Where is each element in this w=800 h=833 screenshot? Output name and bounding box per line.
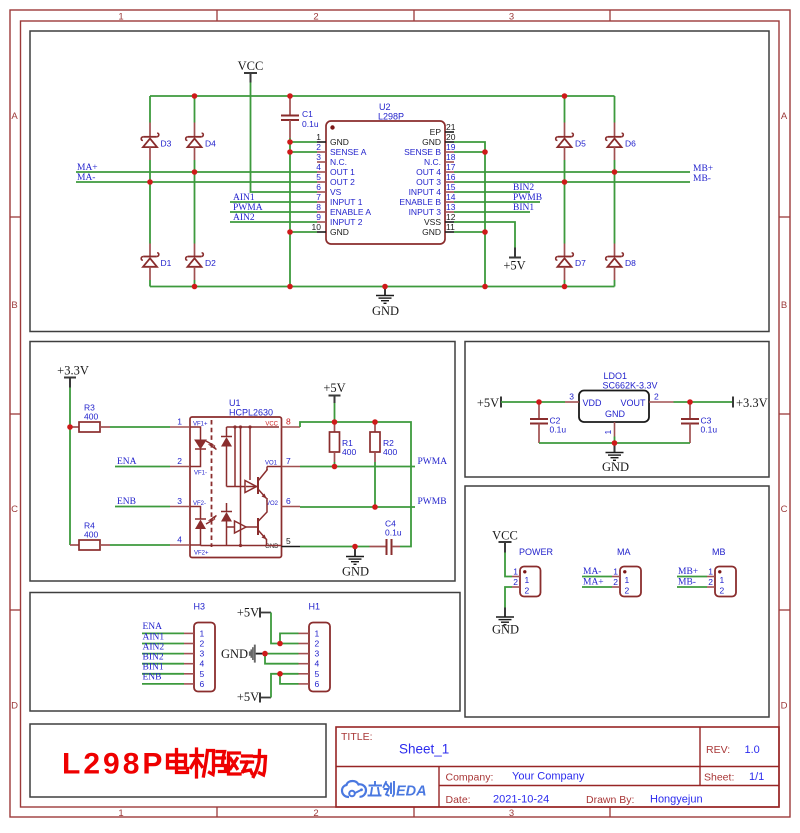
svg-text:B: B bbox=[11, 300, 17, 311]
svg-text:5: 5 bbox=[316, 172, 321, 182]
svg-text:LDO1: LDO1 bbox=[604, 371, 628, 381]
svg-text:1: 1 bbox=[513, 567, 518, 577]
svg-text:PWMB: PWMB bbox=[418, 497, 447, 507]
LDO1 pin 1 GND bbox=[603, 422, 615, 437]
svg-text:4: 4 bbox=[177, 535, 182, 545]
diode D6 bbox=[606, 123, 636, 161]
U1 pin 6 VO2 bbox=[266, 496, 300, 507]
diode D7 bbox=[556, 244, 586, 281]
diode D1 bbox=[141, 244, 171, 281]
op IC U2 L298P body bbox=[326, 102, 445, 244]
svg-text:VO1: VO1 bbox=[265, 461, 278, 467]
capacitor C4 bbox=[370, 519, 402, 556]
junction dots opto section bbox=[67, 419, 378, 549]
wire VCC top rail bbox=[150, 95, 615, 97]
diode D4 bbox=[186, 123, 216, 161]
net PWMB wire to U2 pin14 bbox=[454, 193, 542, 203]
wire GND to H1 pins 3,4 bbox=[265, 654, 299, 664]
net ENA wire to U1 pin2 bbox=[115, 457, 170, 467]
ground symbol GND LDO bbox=[602, 443, 629, 474]
connector MB header bbox=[707, 547, 736, 597]
svg-text:MA-: MA- bbox=[583, 567, 601, 577]
H3 pin 2 wire net AIN1 bbox=[142, 632, 205, 648]
resistor R4 bbox=[70, 521, 110, 551]
svg-text:2: 2 bbox=[200, 639, 205, 649]
U2 pin 5 OUT 2 bbox=[316, 172, 355, 187]
svg-text:8: 8 bbox=[316, 202, 321, 212]
svg-text:3: 3 bbox=[569, 392, 574, 402]
svg-text:1: 1 bbox=[708, 567, 713, 577]
svg-text:9: 9 bbox=[316, 212, 321, 222]
svg-text:12: 12 bbox=[446, 212, 456, 222]
H3 pin 3 wire net AIN2 bbox=[142, 642, 205, 658]
svg-text:BIN2: BIN2 bbox=[143, 653, 164, 663]
wire R2 to PWMB net bbox=[374, 462, 376, 507]
svg-text:+5V: +5V bbox=[237, 690, 259, 704]
svg-text:EDA: EDA bbox=[396, 784, 427, 800]
U1 pin 4 VF2+ bbox=[170, 535, 209, 557]
U1 internal arrow channel 1 bbox=[206, 441, 217, 450]
connector H1 header body bbox=[309, 602, 331, 692]
wire diode column D5/D7 bbox=[564, 96, 566, 287]
H3 pin 4 wire net BIN2 bbox=[142, 653, 205, 669]
svg-text:REV:: REV: bbox=[706, 744, 730, 756]
svg-text:D8: D8 bbox=[625, 258, 636, 268]
net MB+ wire to MB pin1 bbox=[677, 567, 707, 577]
wire POWER pin2 to GND bbox=[505, 587, 512, 608]
svg-text:VO2: VO2 bbox=[266, 501, 279, 507]
svg-text:1: 1 bbox=[118, 12, 123, 23]
svg-text:B: B bbox=[781, 300, 787, 311]
ruler row letters left bbox=[11, 111, 18, 712]
svg-text:GND: GND bbox=[492, 623, 519, 637]
svg-text:AIN2: AIN2 bbox=[143, 642, 165, 652]
svg-text:MB-: MB- bbox=[693, 174, 711, 184]
svg-text:1: 1 bbox=[603, 430, 613, 435]
svg-text:POWER: POWER bbox=[519, 547, 554, 557]
svg-text:OUT 3: OUT 3 bbox=[416, 177, 441, 187]
svg-text:OUT 4: OUT 4 bbox=[416, 167, 441, 177]
svg-text:2: 2 bbox=[654, 392, 659, 402]
svg-text:D4: D4 bbox=[205, 139, 216, 149]
logo EasyEDA cloud icon bbox=[342, 781, 366, 797]
svg-text:18: 18 bbox=[446, 152, 456, 162]
power flag +3.3V opto bbox=[57, 364, 89, 388]
wire LDO ground rail bbox=[539, 437, 690, 444]
svg-text:1: 1 bbox=[118, 808, 123, 819]
svg-text:INPUT 4: INPUT 4 bbox=[409, 187, 442, 197]
U2 pin 15 INPUT 4 bbox=[409, 182, 456, 197]
svg-text:Hongyejun: Hongyejun bbox=[650, 794, 703, 806]
svg-text:Your Company: Your Company bbox=[512, 771, 585, 783]
svg-text:6: 6 bbox=[200, 679, 205, 689]
logo EasyEDA text bbox=[369, 782, 427, 800]
connector POWER header P1 bbox=[512, 547, 554, 597]
wire LDO VOUT to +3.3V flag bbox=[674, 401, 734, 403]
svg-text:H3: H3 bbox=[194, 602, 206, 612]
svg-text:ENB: ENB bbox=[143, 673, 162, 683]
svg-text:2: 2 bbox=[177, 456, 182, 466]
wire +5V to H1 pins 5,6 bbox=[271, 674, 299, 698]
U2 pin 4 OUT 1 bbox=[316, 162, 355, 177]
power flag +3.3V LDO output bbox=[733, 396, 768, 410]
wire R1 to PWMA net bbox=[334, 462, 336, 467]
wire bottom GND rail bbox=[150, 286, 615, 288]
wire +5V rail to R1 R2 and C4 branch bbox=[300, 403, 411, 547]
title block border bbox=[336, 727, 779, 807]
svg-text:1/1: 1/1 bbox=[749, 771, 764, 783]
svg-text:BIN1: BIN1 bbox=[143, 663, 164, 673]
U2 pin 21 EP bbox=[430, 122, 456, 137]
svg-text:Sheet:: Sheet: bbox=[704, 772, 734, 784]
svg-text:VCC: VCC bbox=[238, 59, 264, 73]
net PWMB wire from U1 pin6 bbox=[300, 497, 447, 507]
svg-text:0.1u: 0.1u bbox=[701, 425, 718, 435]
svg-text:MB+: MB+ bbox=[693, 164, 713, 174]
section box: header section bbox=[30, 593, 460, 712]
capacitor C3 bbox=[681, 402, 717, 443]
svg-text:ENB: ENB bbox=[117, 497, 136, 507]
H1 pin 3 stub bbox=[299, 649, 320, 659]
svg-text:AIN2: AIN2 bbox=[233, 213, 255, 223]
svg-text:+5V: +5V bbox=[503, 259, 525, 273]
H1 pin 2 stub bbox=[299, 639, 320, 649]
net ENB wire to U1 pin3 bbox=[115, 497, 170, 507]
ruler column numbers bottom bbox=[118, 808, 514, 819]
net AIN2 wire to U2 pin9 bbox=[230, 213, 317, 223]
svg-text:21: 21 bbox=[446, 122, 456, 132]
svg-text:13: 13 bbox=[446, 202, 456, 212]
svg-text:C: C bbox=[781, 504, 788, 515]
U1 pin 7 VO1 bbox=[265, 456, 300, 467]
U1 internal arrow channel 2 bbox=[206, 516, 217, 525]
U1 pin 1 VF1+ bbox=[170, 417, 208, 428]
U1 internal amplifier channel 1 bbox=[245, 481, 257, 493]
svg-text:3: 3 bbox=[509, 12, 514, 23]
svg-text:10: 10 bbox=[312, 222, 322, 232]
svg-text:3: 3 bbox=[200, 649, 205, 659]
svg-text:VS: VS bbox=[330, 187, 342, 197]
svg-text:5: 5 bbox=[286, 536, 291, 546]
svg-text:MB+: MB+ bbox=[678, 567, 698, 577]
wire U2 VSS pin12 to +5V flag bbox=[454, 222, 515, 248]
ground symbol GND opto bbox=[342, 547, 369, 579]
svg-text:0.1u: 0.1u bbox=[550, 425, 567, 435]
svg-text:16: 16 bbox=[446, 172, 456, 182]
svg-text:VDD: VDD bbox=[583, 398, 603, 408]
svg-text:ENABLE B: ENABLE B bbox=[399, 197, 441, 207]
svg-text:+5V: +5V bbox=[477, 396, 499, 410]
svg-text:2: 2 bbox=[313, 808, 318, 819]
wire R3 to U1 pin1 bbox=[110, 426, 170, 428]
svg-text:GND: GND bbox=[330, 137, 349, 147]
net AIN1 wire to U2 pin7 bbox=[230, 193, 317, 203]
U1 pin 8 VCC bbox=[265, 417, 300, 428]
svg-text:1: 1 bbox=[200, 628, 205, 638]
svg-text:D1: D1 bbox=[161, 258, 172, 268]
voltage regulator LDO1 SC662K-3.3V body bbox=[579, 371, 658, 422]
svg-text:OUT 2: OUT 2 bbox=[330, 177, 355, 187]
svg-text:MA-: MA- bbox=[77, 173, 95, 183]
svg-text:D: D bbox=[11, 701, 18, 712]
U2 pin 13 INPUT 3 bbox=[409, 202, 456, 217]
svg-text:C: C bbox=[11, 504, 18, 515]
svg-text:D2: D2 bbox=[205, 258, 216, 268]
svg-text:1: 1 bbox=[177, 417, 182, 427]
resistor R3 bbox=[70, 403, 110, 433]
U1 internal bias lines bbox=[201, 425, 282, 547]
svg-text:GND: GND bbox=[605, 409, 626, 419]
power flag +5V header top bbox=[237, 606, 271, 620]
svg-text:7: 7 bbox=[286, 456, 291, 466]
svg-text:3: 3 bbox=[177, 496, 182, 506]
svg-text:7: 7 bbox=[316, 192, 321, 202]
junction dots header section bbox=[262, 641, 283, 677]
wire diode column D6/D8 bbox=[614, 96, 616, 287]
svg-text:A: A bbox=[781, 111, 788, 122]
svg-text:N.C.: N.C. bbox=[424, 157, 441, 167]
wire +5V to H1 pins 1,2 bbox=[271, 613, 299, 644]
svg-text:D7: D7 bbox=[575, 258, 586, 268]
net MB- wire to MB pin2 bbox=[677, 578, 707, 588]
H3 pin 6 wire net ENB bbox=[142, 673, 205, 689]
svg-text:D: D bbox=[781, 701, 788, 712]
H1 pin 6 stub bbox=[299, 679, 320, 689]
U1 pin 5 GND bbox=[265, 536, 300, 550]
U2 pin 1 GND bbox=[316, 132, 349, 147]
svg-text:VF1-: VF1- bbox=[194, 471, 207, 477]
power flag +5V opto bbox=[323, 381, 345, 403]
svg-text:400: 400 bbox=[342, 447, 356, 457]
svg-text:2: 2 bbox=[525, 586, 530, 596]
svg-text:A: A bbox=[11, 111, 18, 122]
U2 pin 14 ENABLE B bbox=[399, 192, 455, 207]
svg-text:MA+: MA+ bbox=[583, 578, 604, 588]
U1 internal transistor Q channel 1 bbox=[258, 467, 282, 507]
junction dots LDO section bbox=[536, 399, 693, 446]
H3 pin 5 wire net BIN1 bbox=[142, 663, 205, 679]
capacitor C2 bbox=[530, 402, 566, 443]
svg-text:2: 2 bbox=[708, 577, 713, 587]
U2 pin 20 GND bbox=[422, 132, 456, 147]
svg-text:GND: GND bbox=[602, 460, 629, 474]
U2 pin 17 OUT 4 bbox=[416, 162, 456, 177]
svg-text:ENABLE A: ENABLE A bbox=[330, 207, 371, 217]
wire diode column D4/D2 bbox=[194, 96, 196, 287]
section box: sheet title section bbox=[30, 724, 326, 797]
svg-text:GND: GND bbox=[422, 227, 441, 237]
svg-text:15: 15 bbox=[446, 182, 456, 192]
wire VCC to POWER pin1 bbox=[505, 553, 512, 577]
power flag VCC bbox=[238, 59, 264, 83]
U1 internal photodiode channel 2 bbox=[221, 503, 232, 546]
svg-text:PWMA: PWMA bbox=[233, 203, 263, 213]
U2 pin 12 VSS bbox=[424, 212, 456, 227]
svg-text:0.1u: 0.1u bbox=[385, 528, 402, 538]
ground symbol GND of top section bbox=[372, 287, 399, 319]
svg-text:6: 6 bbox=[286, 496, 291, 506]
U2 pin 9 INPUT 2 bbox=[316, 212, 362, 227]
svg-text:1: 1 bbox=[525, 575, 530, 585]
U1 internal LED channel 1 bbox=[190, 427, 206, 467]
diode D3 bbox=[141, 123, 171, 161]
U2 pin 8 ENABLE A bbox=[316, 202, 371, 217]
connector H3 header body bbox=[194, 602, 216, 692]
ground symbol GND connector bbox=[492, 608, 519, 637]
svg-text:2: 2 bbox=[315, 639, 320, 649]
net MB- wire bbox=[454, 174, 711, 184]
U2 pin 10 GND bbox=[312, 222, 349, 237]
power flag +5V header bottom bbox=[237, 690, 271, 704]
svg-text:VF2+: VF2+ bbox=[194, 551, 209, 557]
svg-text:Date:: Date: bbox=[446, 794, 471, 806]
svg-text:EP: EP bbox=[430, 127, 442, 137]
net MA- wire bbox=[76, 173, 317, 183]
svg-text:AIN1: AIN1 bbox=[233, 193, 255, 203]
junction dots top section bbox=[147, 93, 617, 289]
svg-text:2: 2 bbox=[316, 142, 321, 152]
U2 pin 16 OUT 3 bbox=[416, 172, 456, 187]
U1 internal amplifier channel 2 bbox=[227, 521, 259, 533]
svg-text:+3.3V: +3.3V bbox=[57, 364, 89, 378]
svg-text:2: 2 bbox=[513, 577, 518, 587]
power flag +5V LDO input bbox=[477, 396, 501, 410]
svg-text:5: 5 bbox=[315, 669, 320, 679]
svg-text:+3.3V: +3.3V bbox=[736, 396, 768, 410]
svg-text:5: 5 bbox=[200, 669, 205, 679]
U1 pin 2 VF1- bbox=[170, 456, 207, 477]
net MB+ wire bbox=[454, 164, 713, 174]
LDO1 pin 3 VDD bbox=[565, 392, 579, 403]
svg-text:HCPL2630: HCPL2630 bbox=[229, 408, 273, 418]
svg-text:PWMB: PWMB bbox=[513, 193, 542, 203]
svg-text:MB: MB bbox=[712, 547, 726, 557]
svg-text:17: 17 bbox=[446, 162, 456, 172]
power flag +5V under U2 bbox=[503, 248, 525, 273]
svg-text:3: 3 bbox=[509, 808, 514, 819]
optocoupler U1 HCPL2630 body bbox=[190, 398, 282, 558]
U2 pin 18 N.C. bbox=[424, 152, 456, 167]
svg-text:VCC: VCC bbox=[492, 529, 518, 543]
svg-text:Drawn By:: Drawn By: bbox=[586, 794, 634, 806]
net PWMA wire to U2 pin8 bbox=[230, 203, 317, 213]
H1 pin 1 stub bbox=[299, 628, 320, 638]
svg-text:U1: U1 bbox=[229, 398, 241, 408]
svg-text:GND: GND bbox=[372, 304, 399, 318]
svg-text:6: 6 bbox=[316, 182, 321, 192]
svg-text:INPUT 2: INPUT 2 bbox=[330, 217, 363, 227]
svg-text:2: 2 bbox=[720, 586, 725, 596]
resistor R1 bbox=[330, 422, 357, 462]
svg-text:2021-10-24: 2021-10-24 bbox=[493, 794, 549, 806]
wire VCC vertical to top rail and VS pin bbox=[251, 83, 318, 193]
U2 pin 2 SENSE A bbox=[316, 142, 366, 157]
wire U1 pin5 GND rail bbox=[300, 546, 370, 548]
svg-text:ENA: ENA bbox=[143, 622, 163, 632]
net BIN1 wire to U2 pin13 bbox=[454, 203, 534, 213]
svg-text:8: 8 bbox=[286, 417, 291, 427]
svg-text:INPUT 3: INPUT 3 bbox=[409, 207, 442, 217]
wire +5V to LDO VDD bbox=[501, 401, 565, 403]
wire C1 to U2 pin1/pin2/pin10 and GND rail bbox=[290, 138, 317, 287]
wire U2 right GND bus to bottom rail bbox=[454, 142, 485, 287]
wire diode column D3/D1 bbox=[149, 96, 151, 287]
title block divider lines bbox=[336, 727, 779, 807]
svg-text:4: 4 bbox=[315, 659, 320, 669]
svg-text:2: 2 bbox=[313, 12, 318, 23]
U1 internal transistor Q channel 2 bbox=[246, 487, 267, 546]
svg-text:1: 1 bbox=[316, 132, 321, 142]
svg-text:Company:: Company: bbox=[446, 772, 494, 784]
svg-text:MA+: MA+ bbox=[77, 163, 98, 173]
svg-text:AIN1: AIN1 bbox=[143, 632, 165, 642]
section box: optocoupler section bbox=[30, 342, 455, 582]
svg-text:4: 4 bbox=[200, 659, 205, 669]
net BIN2 wire to U2 pin15 bbox=[454, 183, 534, 193]
svg-text:1: 1 bbox=[720, 575, 725, 585]
resistor R2 bbox=[370, 422, 397, 462]
ruler row letters right bbox=[781, 111, 788, 712]
svg-text:+5V: +5V bbox=[237, 606, 259, 620]
U2 pin 19 SENSE B bbox=[404, 142, 456, 157]
svg-text:3: 3 bbox=[315, 649, 320, 659]
svg-text:Sheet_1: Sheet_1 bbox=[399, 742, 449, 757]
diode D5 bbox=[556, 123, 586, 161]
svg-text:2: 2 bbox=[613, 577, 618, 587]
svg-text:OUT 1: OUT 1 bbox=[330, 167, 355, 177]
connector MA header bbox=[612, 547, 641, 597]
U2 pin 3 N.C. bbox=[316, 152, 347, 167]
svg-text:SC662K-3.3V: SC662K-3.3V bbox=[603, 381, 658, 391]
net MA+ wire bbox=[76, 163, 317, 173]
wire R4 to U1 pin4 bbox=[110, 544, 170, 546]
svg-text:L298P: L298P bbox=[62, 748, 165, 781]
svg-text:N.C.: N.C. bbox=[330, 157, 347, 167]
svg-text:6: 6 bbox=[315, 679, 320, 689]
H3 pin 1 wire net ENA bbox=[142, 622, 205, 638]
LDO1 pin 2 VOUT bbox=[649, 392, 674, 403]
svg-text:19: 19 bbox=[446, 142, 456, 152]
svg-text:MA: MA bbox=[617, 547, 631, 557]
svg-text:2: 2 bbox=[625, 586, 630, 596]
svg-text:D5: D5 bbox=[575, 139, 586, 149]
H1 pin 4 stub bbox=[299, 659, 320, 669]
section box: connector section bbox=[465, 486, 769, 717]
svg-text:400: 400 bbox=[84, 412, 98, 422]
U1 pin 3 VF2- bbox=[170, 496, 206, 507]
svg-text:1: 1 bbox=[315, 628, 320, 638]
svg-text:20: 20 bbox=[446, 132, 456, 142]
svg-text:1.0: 1.0 bbox=[745, 744, 760, 756]
capacitor C1 bbox=[281, 96, 319, 138]
svg-text:0.1u: 0.1u bbox=[302, 119, 319, 129]
svg-text:3: 3 bbox=[316, 152, 321, 162]
svg-text:U2: U2 bbox=[379, 102, 391, 112]
svg-text:VSS: VSS bbox=[424, 217, 441, 227]
svg-text:GND: GND bbox=[221, 647, 248, 661]
svg-text:1: 1 bbox=[625, 575, 630, 585]
svg-text:L298P: L298P bbox=[378, 112, 404, 122]
U2 pin 6 VS bbox=[316, 182, 341, 197]
svg-text:GND: GND bbox=[342, 565, 369, 579]
net MA- wire to MA pin1 bbox=[582, 567, 612, 577]
U2 pin 11 GND bbox=[422, 222, 455, 237]
net MA+ wire to MA pin2 bbox=[582, 578, 612, 588]
svg-text:+5V: +5V bbox=[323, 381, 345, 395]
wire +3.3V rail to R3/R4 bbox=[69, 388, 71, 546]
svg-text:SENSE A: SENSE A bbox=[330, 147, 367, 157]
svg-text:H1: H1 bbox=[309, 602, 321, 612]
